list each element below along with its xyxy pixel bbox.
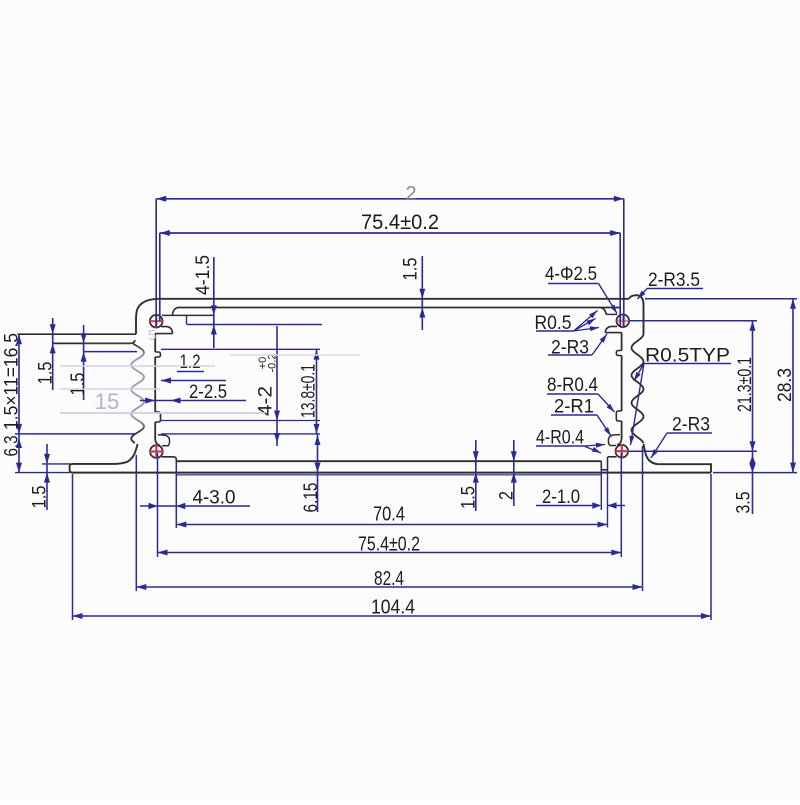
extension line y=349.6 xyxy=(161,348,320,350)
dimension: 28.3 (rotated label) xyxy=(792,299,794,473)
profile: right wall wavy fin field xyxy=(632,334,644,443)
dimension: 4-3.0 xyxy=(140,505,250,507)
profile: top-left boss mouth lower lip xyxy=(161,327,173,334)
dimension: 6.15 (rotated label) xyxy=(317,434,319,512)
dimension: 1.5 top wall thickness (rotated label) xyxy=(421,256,423,330)
dimension: 1.5 fin pitch a (rotated) xyxy=(52,318,54,390)
boss center cross mark at (156.2,321.2) xyxy=(149,320,163,322)
boss center cross mark at (622.8,320.8) xyxy=(616,320,630,322)
boss center cross mark at (621.8,451.2) xyxy=(615,450,629,452)
dimension: 2-1.0 floor slots xyxy=(536,505,594,507)
profile: bottom outer surface xyxy=(73,472,712,474)
svg-text:82.4: 82.4 xyxy=(374,568,404,590)
extension lines for flange thickness xyxy=(42,463,70,465)
svg-text:1.5: 1.5 xyxy=(401,258,422,281)
profile: left wall scalloped fin field xyxy=(131,343,144,443)
svg-text:13.8±0.1: 13.8±0.1 xyxy=(299,364,320,418)
profile: top-left screw boss circle xyxy=(150,315,163,328)
svg-text:5: 5 xyxy=(148,327,156,344)
dimension: 4-2 +0 -0.2 (rotated label) xyxy=(276,326,278,446)
profile: left wall inner face xyxy=(154,334,156,352)
profile: left long fin lower edge xyxy=(53,340,135,343)
profile: top wall outer surface xyxy=(158,298,629,300)
svg-text:3.5: 3.5 xyxy=(734,492,755,514)
dimension: 3.5 (rotated label) xyxy=(749,455,755,464)
dimension: 75.4±0.2 top y=233 xyxy=(160,232,620,234)
extension line y=420.5 xyxy=(161,420,320,422)
extension lines: bottom dims xyxy=(72,474,74,620)
dimension: 70.4 xyxy=(176,524,607,526)
profile: top-right boss mouth lower lip xyxy=(605,326,617,332)
profile: right wall bottom curve 2-R3 xyxy=(644,444,659,464)
svg-text:2-1.0: 2-1.0 xyxy=(542,487,580,508)
dimension: 21.3±0.1 (rotated label) xyxy=(752,321,754,514)
svg-text:75.4±0.2: 75.4±0.2 xyxy=(361,211,439,234)
profile: right inner face tab 1 xyxy=(616,351,621,356)
svg-text:8-R0.4: 8-R0.4 xyxy=(547,375,598,396)
profile: top-right screw boss circle xyxy=(617,315,630,328)
extension lines: top-right to boss center xyxy=(623,199,625,327)
svg-text:4-3.0: 4-3.0 xyxy=(193,488,236,509)
svg-text:15: 15 xyxy=(95,389,119,414)
profile: top-right boss mouth upper lip with R3 fillet xyxy=(600,308,606,315)
dimension: 13.8±0.1 (rotated label) xyxy=(316,350,318,434)
faint blue line under floor xyxy=(177,474,601,476)
extension line: fin edge y=351.6 xyxy=(84,351,137,353)
profile: right flange end xyxy=(658,464,711,472)
profile: 2-1.0 slot in floor xyxy=(601,457,607,470)
profile: right wall inner face xyxy=(621,333,623,351)
profile: top-left corner radius R3.5 xyxy=(136,299,158,322)
dimension: 75.4±0.2 bottom xyxy=(158,552,622,554)
extension line: bottom boss center to right xyxy=(628,450,757,452)
watermark remnant: faint lines xyxy=(60,365,215,367)
svg-text:2: 2 xyxy=(405,183,416,205)
profile: left long fin top edge xyxy=(18,333,137,335)
dimension: 1.2 tab width xyxy=(177,371,204,373)
profile: top-left boss ledge xyxy=(155,333,172,335)
watermark wash over left fin field xyxy=(86,350,152,426)
profile: top-right boss ledge xyxy=(605,332,621,334)
extension line: flange bottom right xyxy=(713,472,797,474)
profile: right inner face tab 2 xyxy=(616,411,621,421)
dimension: 82.4 xyxy=(136,586,642,588)
svg-text:1.2: 1.2 xyxy=(180,352,201,373)
extension line y=433.9 (ledge) xyxy=(161,433,320,435)
svg-text:70.4: 70.4 xyxy=(373,504,405,526)
svg-text:1.5: 1.5 xyxy=(36,362,57,385)
dimension: top overall (faded label 2) y=198.8 xyxy=(156,198,624,200)
dimension: 1.5x11=16.5 fin field height (rotated) xyxy=(18,334,20,472)
svg-text:1.5: 1.5 xyxy=(459,486,480,509)
svg-text:28.3: 28.3 xyxy=(775,368,796,402)
extension line: fin field bottom y=433.9 xyxy=(15,433,135,435)
extension stub x=186.5 xyxy=(186,315,188,324)
profile: left inner face tab 2 xyxy=(155,412,160,422)
extension lines for 2-1.0 xyxy=(600,468,602,510)
svg-text:21.3±0.1: 21.3±0.1 xyxy=(735,357,756,412)
extension lines: top-left to boss center xyxy=(155,199,157,327)
dimension: 4-1.5 slot width (rotated label) xyxy=(213,257,215,348)
svg-text:1.5: 1.5 xyxy=(68,373,89,396)
profile: bottom-left boss mouth lower lip xyxy=(162,457,177,461)
profile: bottom wall inner surface xyxy=(176,460,601,462)
dimension: 2 (rotated) xyxy=(513,440,515,506)
svg-text:4-1.5: 4-1.5 xyxy=(193,255,214,295)
svg-text:1.5: 1.5 xyxy=(30,486,51,509)
dimension: 104.4 xyxy=(73,615,712,617)
boss center cross mark at (156.4,451.5) xyxy=(149,450,163,452)
profile: top-right corner radius 2-R3.5 xyxy=(629,295,644,334)
dimension: 1.5 bottom wall thickness (rotated) xyxy=(475,440,477,511)
profile: bottom-left boss mouth upper lip xyxy=(158,435,170,446)
svg-text:4-Φ2.5: 4-Φ2.5 xyxy=(545,264,597,285)
profile: bottom-right screw boss circle xyxy=(616,445,629,458)
svg-text:75.4±0.2: 75.4±0.2 xyxy=(358,534,420,556)
svg-text:2-2.5: 2-2.5 xyxy=(189,382,227,403)
profile: bottom-left screw boss circle xyxy=(150,445,163,458)
svg-text:6.3: 6.3 xyxy=(2,436,23,457)
profile: right lower boss approach xyxy=(617,439,622,445)
dimension: 2-2.5 slot depth xyxy=(140,400,246,402)
extension line: top wall outer to far right xyxy=(645,298,797,300)
svg-text:104.4: 104.4 xyxy=(371,597,415,619)
profile: bottom-right boss mouth lower lip xyxy=(608,456,617,458)
svg-text:4-2: 4-2 xyxy=(256,386,277,416)
svg-text:1.5×11=16.5: 1.5×11=16.5 xyxy=(2,333,23,430)
profile: left lower boss approach xyxy=(155,440,160,446)
profile: left wall outer face upper xyxy=(135,320,137,334)
dimension: 6.3 (rotated) xyxy=(16,438,22,448)
extension line: slot bottom y=324.5 xyxy=(187,324,322,326)
dimension: 1.5 fin pitch b (rotated) xyxy=(83,325,85,400)
dimension: 1.5 flange thickness (rotated) xyxy=(46,444,48,510)
extension line: top boss center to right xyxy=(629,320,757,322)
profile: left wall outer face lower + bottom curve to flange xyxy=(70,444,138,473)
profile: top-left boss mouth upper lip (extends as ext line) xyxy=(172,308,178,316)
svg-text:-0.2: -0.2 xyxy=(267,354,279,373)
svg-text:2: 2 xyxy=(497,491,518,500)
profile: bottom-right boss mouth upper lip xyxy=(608,435,620,446)
profile: top wall inner surface xyxy=(178,307,620,309)
profile: left inner face tab 1 xyxy=(155,352,160,357)
svg-text:6.15: 6.15 xyxy=(301,483,322,513)
